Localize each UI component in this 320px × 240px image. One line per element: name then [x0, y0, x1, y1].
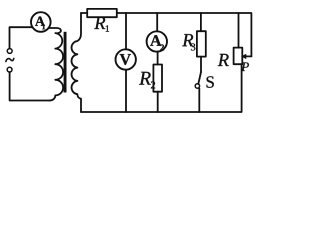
transformer core: [64, 32, 67, 93]
label R3: [182, 34, 193, 46]
label R2 subscript: [151, 81, 155, 88]
wire top left: [81, 12, 87, 14]
transformer primary coil: [49, 28, 64, 101]
label A2 subscript: [160, 44, 164, 50]
terminal top: [7, 49, 12, 54]
wire top right: [117, 13, 252, 56]
label S: [207, 76, 214, 87]
label R: [218, 54, 229, 66]
label R2: [139, 72, 151, 85]
voltmeter branch wire: [125, 13, 127, 49]
ammeter A2: [147, 31, 167, 51]
wire from A1 left to source: [10, 27, 33, 48]
R3 branch wire: [200, 13, 202, 31]
voltmeter V: [116, 49, 136, 69]
switch S blade: [198, 72, 201, 84]
label A1 subscript: [42, 24, 45, 29]
label R3 subscript: [191, 43, 195, 50]
rheostat branch wire: [238, 13, 240, 48]
label A2 letter: [150, 35, 161, 46]
transformer secondary coil: [72, 13, 81, 112]
label R1 subscript: [106, 25, 109, 31]
ammeter A2 branch wire: [156, 13, 158, 31]
resistor R2: [153, 65, 162, 92]
AC source tilde: [6, 58, 14, 61]
wire below switch: [198, 88, 200, 112]
resistor R1: [87, 9, 117, 17]
wire R3 to switch: [200, 57, 202, 72]
rheostat R: [234, 48, 243, 65]
label A1 letter: [35, 17, 45, 26]
terminal bottom: [7, 67, 12, 72]
wire A2 to R2: [157, 52, 159, 65]
label V letter: [120, 54, 131, 65]
wire bottom: [81, 64, 242, 112]
slider arrow line: [246, 55, 252, 57]
label R1: [94, 17, 105, 29]
wire from bottom terminal to primary coil: [10, 72, 50, 100]
wire below R2: [157, 92, 159, 112]
resistor R3: [197, 31, 206, 56]
switch contact: [195, 84, 199, 88]
wire below voltmeter: [125, 70, 127, 112]
ammeter A1: [31, 12, 51, 32]
label P: [241, 62, 249, 71]
slider arrowhead: [241, 54, 246, 59]
